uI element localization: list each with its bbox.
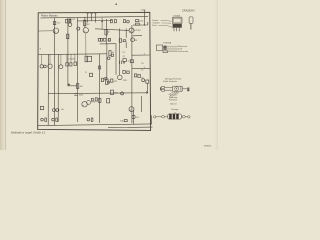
svg-text:+40V: +40V	[140, 10, 146, 12]
svg-text:Glimmer: Glimmer	[170, 103, 177, 105]
svg-text:Widerstand: Widerstand	[177, 45, 187, 48]
svg-text:Kondensator: Kondensator	[177, 50, 188, 53]
svg-text:KT315: KT315	[135, 30, 142, 32]
svg-text:+0,65V: +0,65V	[68, 58, 75, 60]
svg-text:M1183-4: M1183-4	[204, 146, 211, 148]
svg-text:KT805A: KT805A	[163, 41, 171, 44]
svg-text:Basis: Basis	[153, 25, 158, 27]
svg-text:CRA2839 II: CRA2839 II	[182, 9, 195, 12]
svg-text:Montage: Montage	[171, 108, 178, 111]
svg-text:Platine Maestro: Platine Maestro	[41, 14, 58, 17]
svg-text:Kuhlblech: Kuhlblech	[169, 100, 177, 102]
svg-text:Kuhlk. Endstufe: Kuhlk. Endstufe	[163, 80, 178, 83]
svg-text:C1 R2: C1 R2	[69, 19, 76, 21]
svg-text:Maßstab in ungef. Größe 1:1: Maßstab in ungef. Größe 1:1	[11, 130, 46, 134]
